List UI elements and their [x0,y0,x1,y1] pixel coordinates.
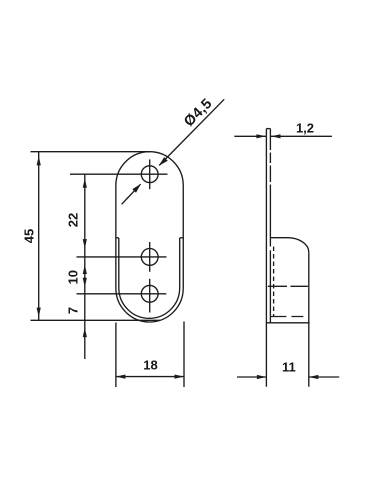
outer plate outline (front view stadium) [116,152,183,322]
svg-text:10: 10 [66,270,81,284]
hole H1 centerline horizontal [70,173,168,175]
arrowhead leader upper (points to hole) [159,157,168,166]
arrowhead 7 bottom outside [83,328,87,338]
dimension line 1,2 right part [271,135,332,137]
svg-text:18: 18 [143,358,157,373]
arrowhead 45 bottom [37,308,41,318]
dimension line 11 left part [237,376,266,378]
svg-text:11: 11 [282,360,296,375]
dimension line 11 right part [309,376,339,378]
hole H3 centerline horizontal [77,293,167,295]
arrowhead 1,2 left [256,134,266,138]
svg-text:45: 45 [22,229,37,243]
hole H2 centerline vertical [149,242,151,272]
arrowhead 1,2 right [271,134,281,138]
extension line bottom (45 dim) [31,319,161,321]
hole H1 (top, Ø4,5) [141,166,158,183]
slot top cap left [116,237,119,239]
side view plate top cap [266,128,270,130]
arrowhead 11 right [309,375,319,379]
arrowhead 18 left [116,375,126,379]
slot top cap right [180,237,184,239]
inner U slot contour [119,238,180,318]
arrowhead 10 bottom [83,278,87,288]
arrowhead 10 top [83,265,87,275]
side view mid horizontal edge [268,285,308,287]
arrowhead 22 bottom [83,239,87,249]
leader line Ø4,5 lower segment [122,184,141,204]
dimension line 45 [38,152,40,321]
svg-text:1,2: 1,2 [296,120,314,135]
hole H3 (bottom) [141,285,158,302]
hole H1 centerline vertical [149,159,151,189]
side view hidden bend line vertical (dashed) [273,247,275,317]
extension line 18 right [183,322,185,388]
arrowhead leader lower (points to hole) [132,184,141,193]
hole H3 centerline vertical [149,279,151,313]
side view flange top edge with rounded corner [270,238,308,253]
extension line top (45 dim) [31,151,151,153]
hole H2 centerline horizontal [77,256,167,258]
arrowhead 45 top [37,156,41,166]
extension line 18 left [115,323,117,388]
side view plate left edge + 11 dim extension [265,129,267,387]
arrowhead 22 top [83,178,87,188]
arrowhead 11 left [257,375,267,379]
side view hidden slot bottom (dashed) [270,316,303,318]
arrowhead 18 right [175,375,185,379]
dimension line 1,2 left part [234,135,266,137]
svg-text:7: 7 [66,307,81,314]
dimension chain line 22/10/7 [84,174,86,359]
side view plate right edge (with breaks) [269,129,271,323]
side view flange right edge + 11 dim extension [308,252,310,387]
dimension line 18 [116,376,184,378]
hole H2 (middle) [141,249,158,266]
leader line Ø4,5 upper segment [159,99,224,165]
svg-text:22: 22 [66,213,81,227]
side view bottom edge [266,322,310,324]
